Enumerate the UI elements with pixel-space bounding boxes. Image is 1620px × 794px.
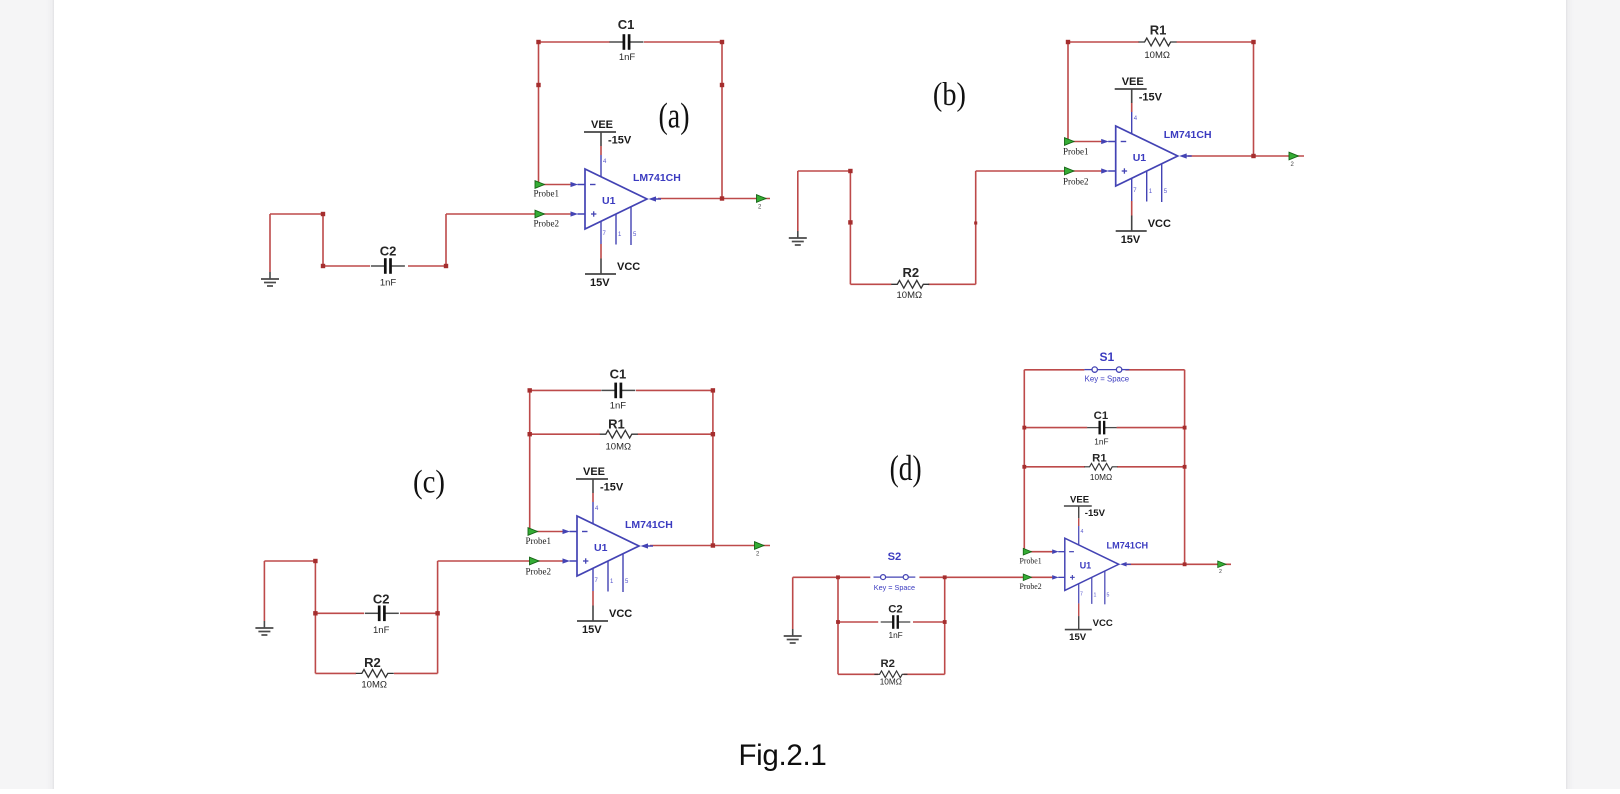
svg-text:15V: 15V — [590, 277, 610, 289]
op-amp U1 (b) output pin stub — [1186, 155, 1192, 157]
junction (d) C1 right node — [1183, 426, 1187, 430]
svg-text:R1: R1 — [608, 417, 625, 432]
junction (b) right vertical mid — [974, 221, 977, 224]
wire (d) output wire — [1125, 563, 1231, 565]
wire (a) wire to inverting input — [539, 184, 573, 186]
wire (c) C2 left — [315, 612, 364, 614]
wire (b) feedback top right — [1177, 41, 1254, 43]
svg-text:10MΩ: 10MΩ — [606, 442, 632, 453]
op-amp U1 (a) output pin stub — [655, 198, 661, 200]
wire (a) feedback left vertical — [538, 42, 540, 185]
op-amp U1 (d) pin 1 lead — [1091, 577, 1093, 604]
op-amp U1 (d) pin 5 lead — [1104, 571, 1106, 604]
capacitor C2 — [881, 615, 911, 629]
ground (a) — [261, 272, 279, 286]
resistor R2 — [891, 280, 929, 288]
svg-text:Probe2: Probe2 — [1063, 177, 1089, 187]
wire (a) input right vertical — [445, 214, 447, 266]
wire (d) C1 left — [1024, 427, 1087, 429]
wire (b) ground drop — [797, 171, 799, 231]
op-amp U1 (c) pin 7 lead — [592, 568, 594, 591]
svg-text:LM741CH: LM741CH — [633, 172, 681, 184]
junction (d) R1 left node — [1022, 465, 1026, 469]
svg-text:R2: R2 — [880, 658, 894, 670]
wire (d) R2 right — [904, 673, 945, 675]
probe arrow Probe2 — [530, 557, 540, 565]
capacitor C1 — [601, 383, 635, 399]
wire (d) input right vertical — [944, 577, 946, 674]
junction (c) C2 left node — [313, 611, 317, 615]
junction (c) R1 left node — [528, 432, 532, 436]
svg-text:C1: C1 — [610, 366, 627, 381]
svg-text:VEE: VEE — [583, 466, 605, 478]
wire (d) input to non-inverting — [945, 576, 1053, 578]
op-amp U1 (b) minus sign — [1121, 141, 1127, 143]
svg-text:VCC: VCC — [1093, 618, 1113, 629]
op-amp U1 (b) triangle body — [1116, 126, 1178, 186]
op-amp U1 (d) plus sign — [1070, 576, 1075, 578]
op-amp U1 (b) pin 4 lead — [1131, 112, 1133, 134]
wire (b) wire to inverting input — [1068, 141, 1103, 143]
svg-text:U1: U1 — [1080, 561, 1092, 571]
output probe arrow (c) output — [755, 542, 765, 550]
wire (b) feedback top left — [1068, 41, 1139, 43]
svg-text:R2: R2 — [364, 655, 381, 670]
node: circuit (a) — [261, 17, 770, 289]
wire (d) wire to inverting input — [1024, 551, 1053, 553]
wire (a) feedback top right — [644, 41, 722, 43]
svg-text:C2: C2 — [888, 604, 902, 616]
svg-text:2: 2 — [1219, 569, 1222, 575]
svg-text:Probe1: Probe1 — [1063, 146, 1089, 156]
junction (b) R1 right — [1251, 40, 1255, 44]
probe arrow Probe2 — [1065, 167, 1075, 175]
wire (c) input to non-inverting — [438, 560, 564, 562]
op-amp U1 (b) pin 5 lead — [1161, 164, 1163, 202]
switch S2 — [873, 575, 915, 580]
op-amp U1 (d) pin 4 lead — [1078, 526, 1080, 545]
svg-text:Fig.2.1: Fig.2.1 — [738, 739, 826, 772]
capacitor C2 — [365, 606, 399, 622]
op-amp U1 (d) non-inverting input pin stub — [1058, 576, 1065, 578]
op-amp U1 (a) non-inverting input pin stub — [578, 213, 586, 215]
junction (b) output node — [1251, 154, 1255, 158]
junction (d) C1 left node — [1022, 426, 1026, 430]
svg-text:(b): (b) — [933, 77, 966, 113]
junction (b) left vertical mid — [848, 220, 852, 224]
wire (c) feedback left vertical — [529, 390, 531, 531]
svg-text:R2: R2 — [902, 265, 919, 280]
output probe arrow (a) output — [757, 195, 767, 203]
svg-text:15V: 15V — [1121, 234, 1141, 246]
wire (b) feedback left vertical — [1067, 42, 1069, 142]
svg-text:VEE: VEE — [1070, 495, 1089, 506]
op-amp U1 (a) pin 7 lead — [600, 221, 602, 244]
junction (a) C1 left — [536, 40, 540, 44]
svg-text:(c): (c) — [413, 464, 445, 500]
junction (c) C2 right node — [435, 611, 439, 615]
svg-text:Probe1: Probe1 — [534, 189, 560, 199]
junction (d) R1 right node — [1183, 465, 1187, 469]
op-amp U1 (d) pin 7 lead — [1078, 584, 1080, 604]
capacitor C2 — [371, 258, 405, 274]
svg-text:S1: S1 — [1100, 350, 1115, 364]
svg-text:Probe1: Probe1 — [1020, 556, 1042, 565]
op-amp U1 (c) pin 4 lead — [592, 502, 594, 524]
svg-text:U1: U1 — [1133, 152, 1147, 164]
wire (b) input right vertical — [975, 171, 977, 284]
svg-text:Probe2: Probe2 — [526, 567, 552, 577]
ground (c) — [255, 621, 273, 635]
wire (a) input left vertical — [322, 214, 324, 266]
svg-text:U1: U1 — [602, 195, 616, 207]
svg-text:15V: 15V — [1069, 632, 1087, 643]
power VEE (U1 (b)) — [1115, 89, 1147, 112]
probe arrow Probe1 — [1023, 548, 1031, 555]
op-amp U1 (b) non-inverting input pin stub — [1108, 170, 1116, 172]
svg-text:1: 1 — [1094, 592, 1097, 598]
svg-text:(d): (d) — [890, 448, 922, 488]
wire (c) input right vertical — [437, 561, 439, 673]
wire (c) C2 right — [400, 612, 438, 614]
svg-text:VEE: VEE — [591, 119, 613, 131]
wire (d) feedback right vertical — [1184, 370, 1186, 565]
svg-text:-15V: -15V — [1085, 508, 1106, 519]
wire (c) input top horizontal — [264, 560, 315, 562]
svg-text:1nF: 1nF — [888, 631, 902, 640]
junction (a) corner lower — [321, 264, 325, 268]
svg-text:1nF: 1nF — [619, 52, 636, 63]
wire (c) wire to inverting input — [530, 531, 564, 533]
wire (c) C1 top right — [636, 389, 713, 391]
junction (d) S2 right node — [943, 575, 947, 579]
svg-text:10MΩ: 10MΩ — [880, 678, 902, 687]
op-amp U1 (b) pin 1 lead — [1146, 171, 1148, 202]
op-amp U1 (d) minus sign — [1069, 551, 1074, 553]
svg-text:R1: R1 — [1150, 23, 1167, 38]
resistor R2 — [874, 671, 907, 678]
op-amp U1 (c) pin 5 lead — [622, 554, 624, 592]
svg-text:-15V: -15V — [600, 482, 624, 494]
wire (c) ground drop — [263, 561, 265, 621]
op-amp U1 (c) output pin stub — [647, 545, 653, 547]
output probe arrow (b) output — [1289, 152, 1299, 160]
wire (c) feedback right vertical — [712, 390, 714, 545]
op-amp U1 (c) plus sign — [583, 560, 588, 562]
junction (a) C2 right node — [444, 264, 448, 268]
wire (d) C2 left — [838, 621, 878, 623]
svg-text:-15V: -15V — [1139, 92, 1163, 104]
node: circuit (d) — [784, 350, 1231, 687]
power VEE (U1 (d)) — [1064, 506, 1092, 526]
svg-text:Key = Space: Key = Space — [874, 583, 915, 592]
power VCC (U1 (b)) — [1116, 201, 1147, 231]
wire (a) C2 left — [323, 265, 370, 267]
svg-text:(a): (a) — [659, 96, 690, 136]
wire (b) input to non-inverting — [976, 170, 1103, 172]
wire (a) ground drop — [269, 214, 271, 272]
svg-text:-15V: -15V — [608, 135, 632, 147]
wire (b) feedback right vertical — [1253, 42, 1255, 156]
svg-text:1nF: 1nF — [380, 278, 397, 289]
svg-text:S2: S2 — [888, 551, 902, 563]
svg-text:C2: C2 — [380, 244, 397, 259]
svg-text:7: 7 — [1080, 592, 1083, 598]
wire (d) input to S2 — [838, 576, 870, 578]
op-amp U1 (d) triangle body — [1065, 538, 1119, 590]
svg-text:C2: C2 — [373, 592, 390, 607]
op-amp U1 (c) minus sign — [582, 531, 588, 533]
svg-text:1nF: 1nF — [1094, 438, 1108, 447]
junction (c) output node — [711, 543, 715, 547]
svg-text:LM741CH: LM741CH — [1107, 541, 1149, 551]
power VCC (U1 (c)) — [577, 591, 608, 621]
ground (b) — [789, 231, 807, 245]
ground (d) — [784, 629, 802, 643]
wire (b) R2 right — [928, 283, 976, 285]
svg-text:VCC: VCC — [1148, 218, 1171, 230]
wire (d) ground drop — [792, 577, 794, 629]
svg-text:C1: C1 — [1094, 410, 1108, 422]
op-amp U1 (a) pin 1 lead — [615, 214, 617, 245]
op-amp U1 (b) plus sign — [1122, 170, 1127, 172]
wire (d) C2 right — [913, 621, 945, 623]
svg-text:1nF: 1nF — [373, 625, 390, 636]
svg-text:10MΩ: 10MΩ — [361, 679, 387, 690]
svg-text:VEE: VEE — [1122, 76, 1144, 88]
wire (a) feedback right vertical — [721, 42, 723, 199]
svg-text:C1: C1 — [618, 17, 635, 32]
probe arrow Probe1 — [528, 528, 538, 536]
op-amp U1 (a) pin 5 lead — [630, 207, 632, 245]
wire (a) input to non-inverting — [446, 213, 572, 215]
junction (a) C1 right — [720, 40, 724, 44]
wire (d) input left vertical — [837, 577, 839, 674]
junction (c) R1 right node — [711, 432, 715, 436]
wire (a) feedback top left — [539, 41, 611, 43]
wire (d) input from ground — [793, 576, 838, 578]
junction (a) right vertical mid — [720, 83, 724, 87]
wire (d) S1 left — [1024, 369, 1084, 371]
junction (d) C2 right node — [943, 620, 947, 624]
switch S1 — [1084, 367, 1129, 372]
junction (d) C2 left node — [836, 620, 840, 624]
capacitor C1 — [610, 34, 644, 50]
wire (c) R1 left — [530, 433, 600, 435]
wire (b) R2 left — [850, 283, 891, 285]
op-amp U1 (a) pin 4 lead — [600, 155, 602, 177]
op-amp U1 (b) pin 7 lead — [1131, 178, 1133, 201]
wire (a) output wire — [658, 198, 770, 200]
wire (d) S1 right — [1125, 369, 1184, 371]
junction (a) left vertical mid — [536, 83, 540, 87]
capacitor C1 — [1087, 421, 1117, 435]
svg-text:Probe2: Probe2 — [534, 218, 560, 228]
probe arrow Probe1 — [1065, 138, 1075, 146]
power VEE (U1 (a)) — [584, 132, 616, 155]
op-amp U1 (c) pin 1 lead — [607, 561, 609, 592]
op-amp U1 (a) minus sign — [590, 184, 596, 186]
wire (d) feedback left vertical — [1023, 370, 1025, 552]
svg-text:10MΩ: 10MΩ — [1090, 473, 1112, 482]
junction (a) corner upper — [321, 212, 325, 216]
svg-text:Key = Space: Key = Space — [1085, 375, 1129, 384]
wire (b) input left vertical — [849, 171, 851, 284]
svg-text:VCC: VCC — [617, 261, 640, 273]
wire (d) C1 right — [1117, 427, 1185, 429]
svg-text:10MΩ: 10MΩ — [897, 290, 923, 301]
svg-text:Probe2: Probe2 — [1020, 582, 1042, 591]
junction (a) output node — [720, 196, 724, 200]
op-amp U1 (c) triangle body — [577, 516, 639, 576]
wire (a) C2 right — [408, 265, 446, 267]
svg-text:VCC: VCC — [609, 608, 632, 620]
junction (d) S2 left node — [836, 575, 840, 579]
wire (d) R1 right — [1117, 466, 1185, 468]
output probe arrow (d) output — [1218, 561, 1226, 568]
svg-text:R1: R1 — [1092, 453, 1106, 465]
wire (c) R2 right — [394, 672, 438, 674]
power VCC (U1 (a)) — [585, 244, 616, 274]
wire (c) input left vertical — [314, 561, 316, 673]
wire (c) R2 left — [315, 672, 356, 674]
op-amp U1 (d) output pin stub — [1126, 563, 1131, 565]
wire (c) C1 top left — [530, 389, 601, 391]
node: circuit (c) — [255, 366, 770, 690]
wire (d) S2 to node — [919, 576, 944, 578]
op-amp U1 (a) inverting input pin stub — [578, 184, 586, 186]
resistor R1 — [1084, 463, 1117, 470]
junction (c) corner upper — [313, 559, 317, 563]
power VEE (U1 (c)) — [576, 479, 608, 502]
resistor R2 — [356, 670, 394, 678]
svg-text:U1: U1 — [594, 542, 608, 554]
op-amp U1 (b) inverting input pin stub — [1108, 141, 1116, 143]
wire (b) output wire — [1188, 155, 1304, 157]
wire (b) input top horizontal — [798, 170, 851, 172]
svg-text:5: 5 — [1107, 592, 1110, 598]
wire (c) R1 right — [638, 433, 713, 435]
node: circuit (b) — [789, 23, 1304, 301]
svg-text:4: 4 — [1080, 529, 1083, 535]
wire (d) R2 left — [838, 673, 878, 675]
power VCC (U1 (d)) — [1065, 603, 1092, 629]
op-amp U1 (d) inverting input pin stub — [1058, 551, 1065, 553]
op-amp U1 (c) non-inverting input pin stub — [570, 560, 578, 562]
svg-text:10MΩ: 10MΩ — [1144, 50, 1170, 61]
svg-text:Probe1: Probe1 — [526, 536, 552, 546]
junction (b) R1 left — [1066, 40, 1070, 44]
resistor R1 — [1139, 38, 1177, 46]
svg-text:LM741CH: LM741CH — [1164, 129, 1212, 141]
svg-text:15V: 15V — [582, 624, 602, 636]
op-amp U1 (c) inverting input pin stub — [570, 531, 578, 533]
op-amp U1 (a) plus sign — [591, 213, 596, 215]
resistor R1 — [600, 430, 638, 438]
junction (b) corner upper — [848, 169, 852, 173]
probe arrow Probe1 — [535, 181, 545, 189]
junction (c) C1 right — [711, 388, 715, 392]
svg-text:1nF: 1nF — [610, 401, 627, 412]
junction (c) C1 left — [528, 388, 532, 392]
svg-text:LM741CH: LM741CH — [625, 519, 673, 531]
probe arrow Probe2 — [535, 210, 545, 218]
wire (a) input top horizontal — [270, 213, 323, 215]
wire (c) output wire — [650, 545, 770, 547]
op-amp U1 (a) triangle body — [585, 169, 647, 229]
junction (d) output node — [1183, 562, 1187, 566]
probe arrow Probe2 — [1023, 574, 1031, 581]
wire (d) R1 left — [1024, 466, 1085, 468]
